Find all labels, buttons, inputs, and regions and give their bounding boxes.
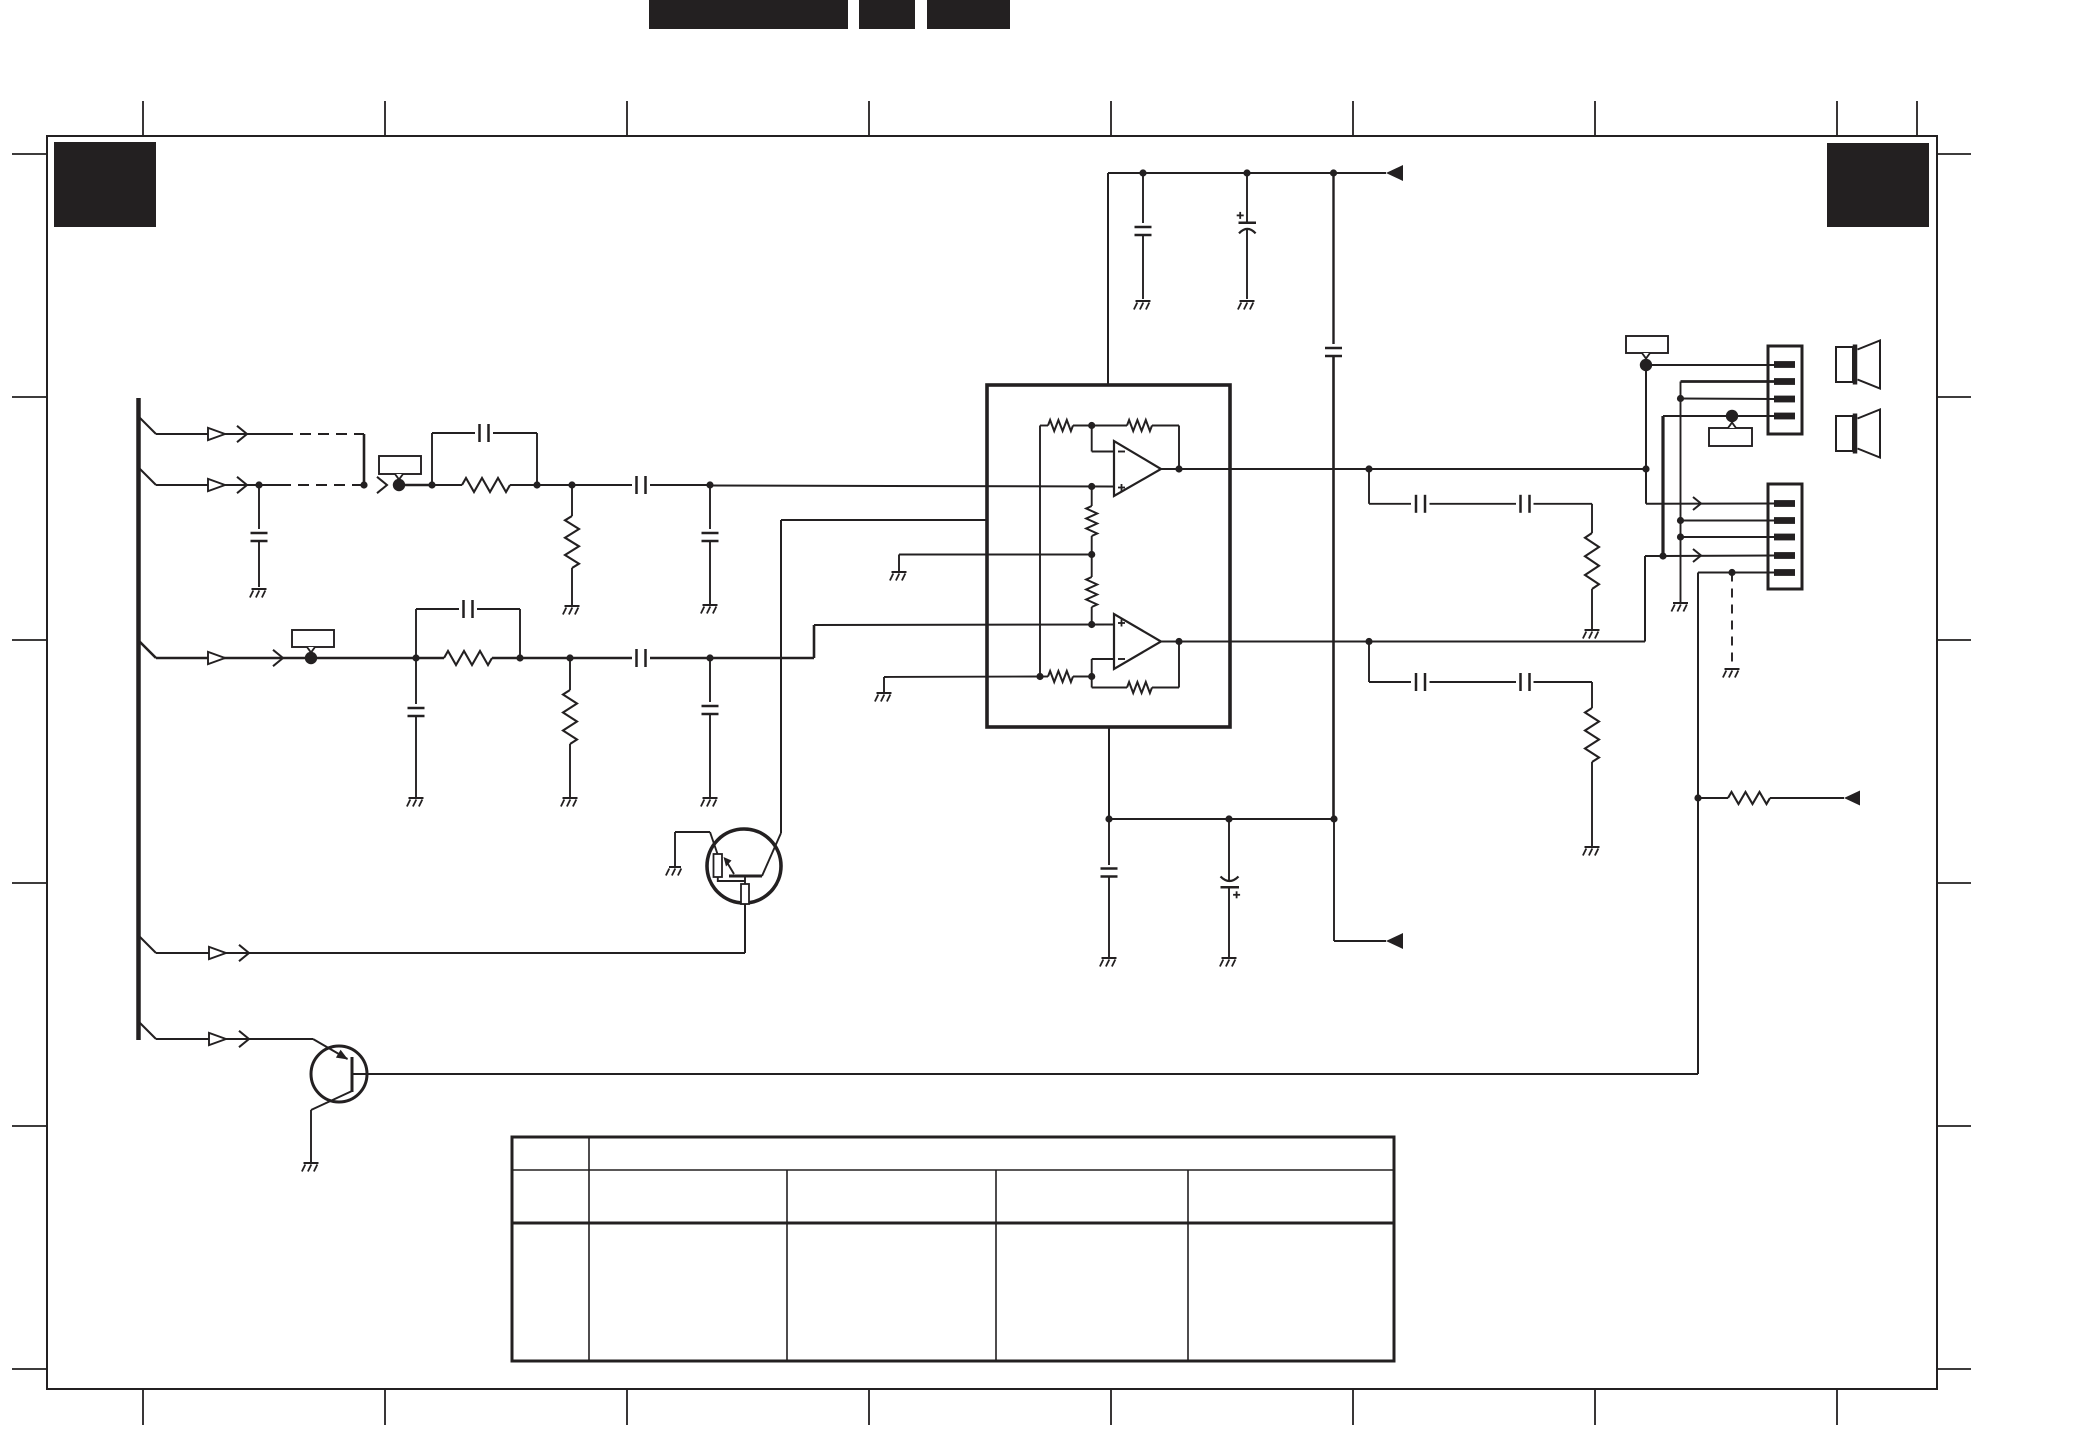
wire C17-R14 — [1534, 682, 1593, 708]
resistor R4 to ground — [563, 658, 577, 797]
wire filter1 — [1369, 469, 1411, 504]
node N23 — [1175, 638, 1182, 645]
wire U1b noninverting input — [1092, 624, 1114, 626]
wire filter2 — [1369, 642, 1411, 683]
ground — [875, 693, 892, 702]
ground — [407, 798, 424, 807]
arrow A10 — [209, 1033, 226, 1045]
ground — [1723, 669, 1740, 678]
node N27 — [1330, 815, 1337, 822]
wire positive rail — [1108, 172, 1386, 174]
capacitor C1 — [251, 485, 268, 587]
wire N8-N9 — [520, 657, 570, 660]
wire N4-N5 — [537, 484, 572, 486]
wire branch3 from bus — [139, 641, 311, 658]
label box P3 — [1626, 336, 1668, 359]
wire N5-C3 — [572, 484, 632, 486]
redacted title bar 2 — [859, 0, 915, 29]
capacitor C13 electrolytic — [1221, 819, 1241, 957]
wire P3 down — [1645, 365, 1647, 504]
wire output2 riser — [1645, 556, 1663, 642]
capacitor C6 to ground — [408, 658, 425, 797]
label box P4 — [1709, 423, 1752, 447]
ground — [666, 867, 681, 876]
ground — [250, 589, 267, 598]
wire C15-R13 — [1534, 504, 1593, 533]
node N4 — [533, 481, 540, 488]
wire X1 pin3 — [1681, 398, 1775, 401]
node N16 — [1088, 551, 1095, 558]
wire ground chain vertical — [1680, 382, 1682, 603]
wire N9-C7 — [570, 657, 632, 660]
wire fb stub to ground — [883, 677, 885, 692]
resistor R15 — [1698, 792, 1844, 804]
node N7 — [412, 654, 419, 661]
wire U1b inverting input — [1092, 659, 1114, 688]
node N3 — [428, 481, 435, 488]
arrow A6 — [208, 652, 225, 664]
speaker LS1 — [1836, 341, 1880, 389]
wire branch2 from bus — [139, 468, 280, 485]
ground — [1583, 847, 1600, 856]
wire C14-C15 — [1430, 503, 1517, 505]
wire U1 inverting input 1 — [1092, 426, 1114, 452]
node N25 — [1105, 815, 1112, 822]
arrow A13 — [1693, 549, 1701, 562]
node N6 — [706, 481, 713, 488]
arrow A8 — [209, 947, 226, 959]
supply arrow top — [1386, 165, 1403, 181]
capacitor C3 — [637, 476, 646, 494]
arrow A12 — [1693, 497, 1701, 510]
ground — [563, 606, 580, 615]
node N15 — [1088, 483, 1095, 490]
wire to supply arrow bottom — [1334, 819, 1386, 941]
node N33 — [1694, 794, 1701, 801]
wire R7 left leg — [1039, 426, 1041, 677]
ground — [890, 572, 907, 581]
wire Q2 lower lead to ground — [310, 1110, 312, 1162]
wire mute sense vertical — [1697, 573, 1699, 1075]
ground — [1134, 301, 1151, 310]
wire U1 supply pin top — [1107, 173, 1109, 385]
arrow A3 — [208, 479, 225, 491]
speaker LS2 — [1836, 410, 1880, 458]
wire P1 to N3 — [399, 484, 432, 486]
corner block top-left — [54, 142, 156, 227]
node N10 — [706, 654, 713, 661]
wire output 2 — [1161, 641, 1645, 643]
capacitor C9 to ground — [1135, 173, 1152, 299]
input bus — [136, 398, 141, 1040]
node N31 — [1677, 533, 1684, 540]
wire supply drop upper — [1332, 173, 1334, 344]
arrow A2 — [237, 426, 247, 442]
resistor R12 U1 feedback — [1092, 642, 1179, 694]
node N5 — [568, 481, 575, 488]
node N29 — [1677, 395, 1684, 402]
resistor R9 divider — [1086, 487, 1097, 537]
resistor R2 to ground — [565, 485, 579, 605]
ground — [1220, 958, 1237, 967]
resistor R10 divider — [1086, 577, 1097, 625]
node N32 — [1728, 569, 1735, 576]
node N14 — [1088, 422, 1095, 429]
node N22 — [1642, 465, 1649, 472]
corner block top-right — [1827, 143, 1929, 227]
wire R13 to ground — [1591, 589, 1593, 629]
wire channel2 to IC — [710, 625, 1114, 659]
transistor Q2 — [311, 1039, 367, 1110]
wire P2-N7 — [311, 657, 416, 660]
wire P3 to connector pin1 — [1646, 364, 1774, 366]
node N24 — [1365, 638, 1372, 645]
wire P4 left — [1663, 415, 1732, 417]
resistor R3 — [416, 651, 520, 665]
capacitor C10 electrolytic — [1237, 173, 1256, 299]
op-amp U1b — [1114, 614, 1161, 669]
wire Q1 collector to IC mute pin — [781, 520, 987, 833]
pot tap P4 — [1726, 410, 1738, 422]
wire P4 to X1 pin4 — [1732, 415, 1774, 417]
wire channel1 to IC — [710, 486, 1114, 487]
ground — [1671, 603, 1688, 612]
node N8 — [516, 654, 523, 661]
wire Q2 to mute line — [352, 1073, 1698, 1075]
capacitor C7 — [637, 649, 646, 667]
redacted title bar 1 — [649, 0, 848, 29]
wire X2 pin2 — [1681, 520, 1775, 522]
wire bottom fb stub — [884, 676, 1040, 679]
node N21 — [1365, 465, 1372, 472]
signal arrow right — [1844, 791, 1860, 806]
capacitor C8 to ground — [702, 658, 719, 797]
wire branch1 dashed — [282, 433, 364, 435]
resistor R13 — [1585, 533, 1599, 589]
ground — [302, 1163, 319, 1172]
resistor R11 U1 feedback — [1040, 671, 1092, 682]
wire X2 pin3 — [1681, 536, 1775, 538]
connector X2 — [1768, 484, 1802, 589]
node N26 — [1225, 815, 1232, 822]
arrow A7 — [273, 650, 283, 666]
arrow A4 — [237, 477, 247, 493]
redacted title bar 3 — [927, 0, 1010, 29]
capacitor C11 — [1325, 348, 1342, 356]
wire branch1 from bus — [139, 417, 282, 434]
node N1 — [255, 481, 262, 488]
arrow A5 — [377, 477, 387, 493]
resistor R14 — [1585, 708, 1599, 762]
wire X2 pin5 — [1698, 572, 1774, 574]
node N17 — [1088, 621, 1095, 628]
label box P1 — [379, 456, 421, 480]
transistor Q1 with internal resistors — [675, 829, 781, 904]
wire mid stub to ground — [898, 555, 900, 572]
capacitor C5 feedback — [416, 600, 520, 658]
wire C7-N10 — [650, 657, 710, 660]
resistor R1 — [432, 478, 537, 492]
wire R14 to ground — [1591, 762, 1593, 846]
wire supply drop lower — [1332, 356, 1335, 819]
wire dashed spare — [1731, 573, 1733, 663]
node N2 — [360, 481, 367, 488]
supply arrow bottom — [1386, 933, 1403, 949]
wire branch4 up to Q1 — [744, 903, 746, 953]
node N30 — [1677, 517, 1684, 524]
ground — [701, 605, 718, 614]
node N13 — [1330, 169, 1337, 176]
connector X1 — [1768, 346, 1802, 434]
wire to X2 pin1 — [1646, 503, 1774, 505]
pot tap P1 — [393, 479, 405, 491]
node N9 — [566, 654, 573, 661]
wire branch4 from bus — [139, 936, 745, 953]
wire branch2 dashed — [280, 484, 364, 486]
wire U1 supply pin bottom — [1108, 727, 1110, 819]
capacitor C2 feedback — [432, 424, 537, 485]
pot tap P2 — [305, 652, 317, 664]
node N18 — [1036, 673, 1043, 680]
arrow A9 — [239, 945, 249, 961]
wire to X2 pin4 — [1663, 555, 1774, 558]
ground — [1238, 301, 1255, 310]
capacitor C16 — [1416, 673, 1425, 691]
label box P2 — [292, 630, 334, 653]
ground — [1583, 630, 1600, 639]
wire branch1 drop — [363, 434, 366, 485]
capacitor C14 — [1416, 495, 1425, 513]
resistor R7 U1 feedback — [1040, 420, 1073, 431]
capacitor C4 to ground — [702, 485, 719, 604]
capacitor C12 to ground — [1101, 819, 1118, 957]
node N20 — [1175, 465, 1182, 472]
wire negative rail — [1109, 818, 1334, 820]
pot tap P3 — [1640, 359, 1652, 371]
node N19 — [1088, 673, 1095, 680]
ground — [1100, 958, 1117, 967]
wire mid node stub — [899, 536, 1092, 577]
wire Q1 base to ground — [674, 832, 676, 866]
op-amp IC U1 outline — [987, 385, 1230, 727]
ground — [561, 798, 578, 807]
node N11 — [1139, 169, 1146, 176]
ground — [701, 798, 718, 807]
capacitor C15 — [1521, 495, 1530, 513]
wire branch5 from bus — [139, 1022, 313, 1039]
wire feedback row — [1073, 425, 1127, 427]
wire C16-C17 — [1430, 681, 1517, 683]
node N12 — [1243, 169, 1250, 176]
op-amp U1a — [1114, 441, 1161, 496]
arrow A1 — [208, 428, 225, 440]
wire output 1 — [1161, 468, 1646, 470]
resistor R8 U1 feedback — [1127, 420, 1179, 469]
thick mute wire — [1661, 416, 1664, 556]
node N28 — [1659, 552, 1666, 559]
revision table — [512, 1137, 1394, 1361]
wire C3-N6 — [650, 484, 710, 486]
wire X1 pin2 — [1681, 380, 1775, 383]
capacitor C17 — [1521, 673, 1530, 691]
arrow A11 — [239, 1031, 249, 1047]
